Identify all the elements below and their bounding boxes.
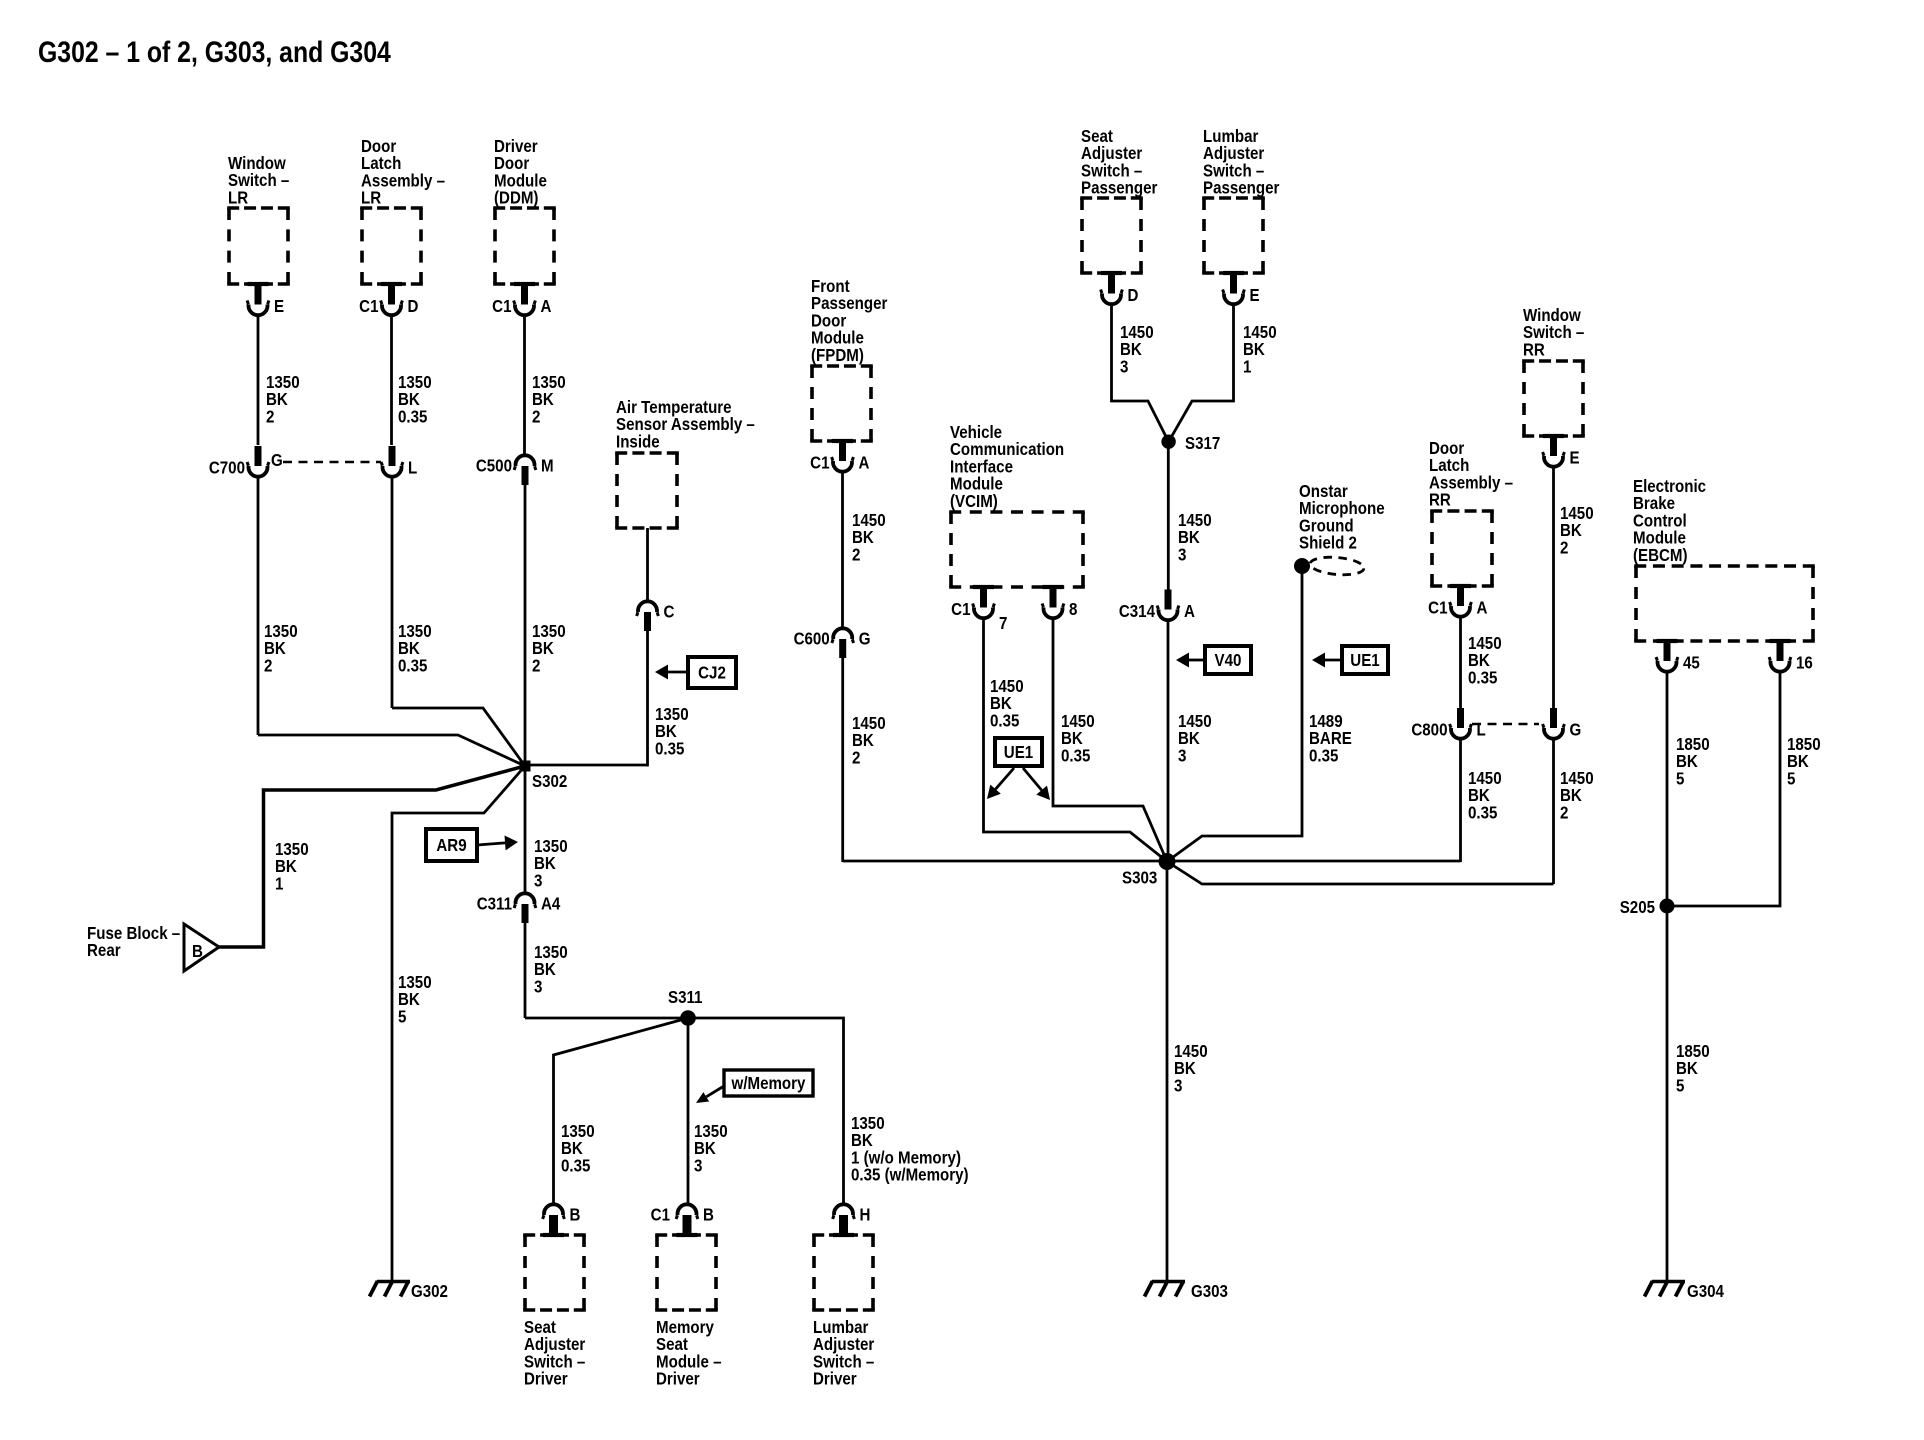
svg-text:RR: RR — [1523, 339, 1545, 360]
svg-text:16: 16 — [1796, 652, 1813, 673]
svg-text:A: A — [859, 452, 870, 473]
svg-text:7: 7 — [999, 613, 1007, 634]
svg-text:1: 1 — [275, 873, 283, 894]
svg-text:Rear: Rear — [87, 940, 121, 961]
svg-text:Passenger: Passenger — [1081, 177, 1158, 198]
svg-text:3: 3 — [1178, 745, 1186, 766]
svg-text:3: 3 — [694, 1155, 702, 1176]
svg-text:3: 3 — [1178, 544, 1186, 565]
svg-text:C1: C1 — [651, 1204, 670, 1225]
svg-text:Driver: Driver — [524, 1368, 568, 1389]
svg-text:S303: S303 — [1122, 867, 1157, 888]
svg-text:C600: C600 — [794, 628, 830, 649]
svg-text:D: D — [408, 296, 419, 317]
svg-text:Driver: Driver — [656, 1368, 700, 1389]
svg-text:0.35: 0.35 — [990, 710, 1019, 731]
svg-text:L: L — [408, 457, 417, 478]
svg-text:A: A — [541, 296, 552, 317]
svg-text:8: 8 — [1069, 599, 1077, 620]
svg-text:LR: LR — [361, 187, 381, 208]
svg-text:3: 3 — [534, 870, 542, 891]
svg-text:Passenger: Passenger — [1203, 177, 1280, 198]
svg-text:V40: V40 — [1215, 650, 1242, 671]
svg-text:(FPDM): (FPDM) — [811, 345, 864, 366]
svg-text:C: C — [664, 601, 675, 622]
svg-text:UE1: UE1 — [1350, 650, 1379, 671]
svg-text:5: 5 — [1787, 768, 1795, 789]
svg-text:2: 2 — [852, 544, 860, 565]
svg-text:3: 3 — [1120, 356, 1128, 377]
svg-text:2: 2 — [532, 655, 540, 676]
svg-text:G303: G303 — [1191, 1281, 1228, 1302]
svg-text:A: A — [1477, 597, 1488, 618]
svg-text:3: 3 — [534, 976, 542, 997]
svg-text:G302: G302 — [411, 1281, 448, 1302]
svg-text:0.35: 0.35 — [561, 1155, 590, 1176]
svg-text:RR: RR — [1429, 489, 1451, 510]
svg-text:C1: C1 — [492, 296, 511, 317]
svg-text:G: G — [859, 628, 871, 649]
svg-text:Driver: Driver — [813, 1368, 857, 1389]
svg-text:C1: C1 — [359, 296, 378, 317]
svg-text:2: 2 — [852, 747, 860, 768]
svg-text:C1: C1 — [951, 599, 970, 620]
svg-text:LR: LR — [228, 187, 248, 208]
svg-text:C1: C1 — [1428, 597, 1447, 618]
svg-text:0.35: 0.35 — [398, 655, 427, 676]
svg-text:Inside: Inside — [616, 431, 660, 452]
svg-text:E: E — [274, 296, 284, 317]
svg-text:(EBCM): (EBCM) — [1633, 545, 1688, 566]
svg-text:S317: S317 — [1185, 433, 1220, 454]
svg-text:B: B — [570, 1204, 581, 1225]
svg-text:3: 3 — [1174, 1075, 1182, 1096]
svg-text:5: 5 — [398, 1006, 406, 1027]
svg-text:C1: C1 — [810, 452, 829, 473]
svg-text:E: E — [1250, 285, 1260, 306]
svg-text:G: G — [1570, 719, 1582, 740]
svg-text:G304: G304 — [1687, 1281, 1725, 1302]
svg-text:B: B — [703, 1204, 714, 1225]
svg-text:2: 2 — [1560, 802, 1568, 823]
svg-text:C800: C800 — [1411, 719, 1447, 740]
svg-text:1: 1 — [1243, 356, 1251, 377]
svg-text:L: L — [1477, 719, 1486, 740]
svg-text:S205: S205 — [1620, 897, 1655, 918]
svg-text:5: 5 — [1676, 1075, 1684, 1096]
svg-text:0.35: 0.35 — [1468, 667, 1497, 688]
svg-text:H: H — [860, 1204, 871, 1225]
svg-text:B: B — [192, 941, 203, 962]
svg-text:M: M — [541, 455, 554, 476]
svg-text:C700: C700 — [209, 457, 245, 478]
svg-text:(VCIM): (VCIM) — [950, 491, 998, 512]
svg-text:AR9: AR9 — [436, 835, 466, 856]
svg-text:G: G — [271, 450, 283, 471]
svg-text:Shield 2: Shield 2 — [1299, 532, 1357, 553]
svg-text:5: 5 — [1676, 768, 1684, 789]
svg-text:C500: C500 — [476, 455, 512, 476]
svg-text:A: A — [1184, 601, 1195, 622]
svg-text:2: 2 — [532, 406, 540, 427]
svg-text:C311: C311 — [477, 893, 512, 914]
svg-text:E: E — [1570, 447, 1580, 468]
svg-text:2: 2 — [1560, 537, 1568, 558]
svg-text:S302: S302 — [532, 771, 567, 792]
svg-text:A4: A4 — [541, 893, 561, 914]
svg-text:0.35 (w/Memory): 0.35 (w/Memory) — [851, 1164, 969, 1185]
svg-text:2: 2 — [264, 655, 272, 676]
svg-text:C314: C314 — [1119, 601, 1156, 622]
svg-text:45: 45 — [1683, 652, 1700, 673]
svg-text:S311: S311 — [668, 987, 702, 1008]
svg-text:0.35: 0.35 — [1061, 745, 1090, 766]
svg-text:0.35: 0.35 — [1468, 802, 1497, 823]
svg-text:2: 2 — [266, 406, 274, 427]
svg-text:0.35: 0.35 — [1309, 745, 1338, 766]
svg-text:0.35: 0.35 — [398, 406, 427, 427]
svg-text:w/Memory: w/Memory — [731, 1073, 806, 1094]
svg-text:G302 – 1 of 2, G303, and G304: G302 – 1 of 2, G303, and G304 — [38, 35, 391, 69]
svg-text:D: D — [1128, 285, 1139, 306]
svg-text:0.35: 0.35 — [655, 738, 684, 759]
svg-text:(DDM): (DDM) — [494, 187, 538, 208]
svg-text:CJ2: CJ2 — [698, 662, 726, 683]
svg-text:UE1: UE1 — [1004, 742, 1033, 763]
